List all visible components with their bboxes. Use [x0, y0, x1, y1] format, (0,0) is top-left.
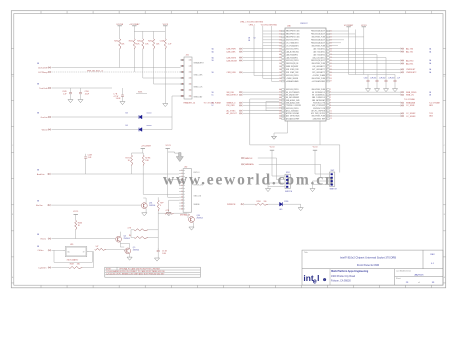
U36 right pin row 28 — [327, 113, 330, 115]
J30 left pin 4 stub — [179, 178, 183, 180]
U36 left pin row 16 — [282, 75, 285, 77]
svg-text:REV: REV — [430, 254, 435, 256]
wire R259 to Q30 — [174, 212, 187, 214]
wire Q31 emitter to ground — [145, 208, 147, 212]
svg-text:47: 47 — [279, 108, 281, 110]
svg-text:USB_D2B/N_CNR: USB_D2B/N_CNR — [286, 69, 299, 71]
wire loop below U35 — [53, 250, 55, 262]
svg-text:Last Modified Date: Last Modified Date — [396, 269, 411, 272]
svg-text:13: 13 — [181, 206, 183, 208]
svg-text:VCC3SBY: VCC3SBY — [344, 25, 354, 27]
resistor R258 330 — [255, 203, 268, 205]
transistor Q30 — [189, 217, 195, 223]
J31 right pin 14 mark — [189, 95, 192, 97]
svg-text:9: 9 — [181, 194, 182, 196]
svg-text:4: 4 — [181, 179, 182, 181]
U36 left pin row 27 — [282, 110, 285, 112]
svg-text:60: 60 — [279, 31, 281, 33]
svg-text:8: 8 — [41, 12, 42, 14]
ground under C263 — [392, 89, 397, 92]
svg-text:J30: J30 — [184, 166, 187, 168]
wire Q33 collector — [129, 244, 131, 249]
port symbol GRNLITE — [48, 116, 49, 117]
svg-text:330: 330 — [77, 264, 80, 266]
resistor R250 10K — [119, 39, 121, 50]
port symbol CD_SPKR — [48, 67, 49, 68]
svg-text:GND/VSS_BYPLN: GND/VSS_BYPLN — [286, 60, 299, 62]
ground SW2 — [310, 189, 315, 192]
wire VCC5 to R266 — [75, 215, 77, 221]
svg-text:SENSE: SENSE — [194, 204, 201, 206]
U36 left pin row 10 — [282, 57, 285, 59]
svg-text:7: 7 — [67, 12, 68, 14]
svg-text:SMB_CLK2B/SCLK: SMB_CLK2B/SCLK — [312, 97, 325, 99]
svg-text:GND_LNK: GND_LNK — [194, 75, 204, 77]
svg-text:10: 10 — [181, 197, 183, 199]
svg-text:74LVC06A/SO: 74LVC06A/SO — [67, 258, 79, 261]
wire PWRBTN to R258 — [244, 203, 255, 205]
U36 right pin wire CNRDDET2 — [329, 71, 401, 73]
wire R266 down to ENET wire — [75, 230, 77, 239]
J30 left pin 7 stub — [179, 187, 183, 189]
svg-text:68: 68 — [279, 54, 281, 56]
svg-text:76: 76 — [279, 78, 281, 80]
diode CR34 blue — [139, 115, 142, 119]
wire R264 left down — [131, 229, 134, 231]
wire CNR_USB to U36 — [243, 71, 280, 73]
svg-text:8: 8 — [249, 12, 250, 14]
J30 left pin 10 stub — [179, 196, 183, 198]
svg-text:35: 35 — [330, 75, 332, 77]
net label SMBCLK — [241, 157, 242, 158]
wire CR35 to rail — [142, 129, 172, 131]
svg-text:Sheet: Sheet — [396, 277, 401, 280]
svg-text:74: 74 — [279, 72, 281, 74]
wire R250 bottom down — [119, 49, 121, 67]
transistor Q33 — [125, 248, 131, 254]
svg-text:VCC5: VCC5 — [73, 211, 78, 213]
svg-text:LAN_PWR: LAN_PWR — [227, 48, 237, 51]
J30 left pin 1 stub — [179, 170, 183, 172]
wire U36 lower-left pin routing — [250, 98, 279, 100]
U36 left pin row 1 — [282, 30, 285, 32]
svg-text:CtlGrn: CtlGrn — [37, 249, 44, 252]
svg-text:8: 8 — [181, 191, 182, 193]
wire rail linking resistor tops — [134, 30, 165, 32]
U36 right pin row 17 — [327, 77, 330, 79]
svg-text:3: 3 — [181, 176, 182, 178]
intel logo — [303, 273, 326, 285]
J30 left pin 5 stub — [179, 181, 183, 183]
svg-text:46: 46 — [279, 105, 281, 107]
svg-text:YelLite: YelLite — [41, 128, 48, 131]
resistor R251 8.2K — [133, 39, 135, 50]
revision table row 3 — [105, 274, 201, 276]
svg-text:2: 2 — [405, 12, 406, 14]
svg-text:www.eeworld.com.cn: www.eeworld.com.cn — [163, 172, 335, 189]
U36 left pin row 8 — [282, 51, 285, 53]
svg-text:2N3904: 2N3904 — [197, 217, 203, 219]
svg-text:VCC3: VCC3 — [165, 145, 170, 147]
resistor R252 10K — [142, 39, 144, 50]
svg-text:VCC3: VCC3 — [361, 25, 367, 27]
U36 right pin row 5 — [327, 42, 330, 44]
wire CD_SPKR to header — [52, 67, 181, 69]
svg-text:B4: B4 — [126, 113, 128, 115]
transistor Q31 — [141, 203, 147, 209]
svg-text:RSVD/NC25_PIN: RSVD/NC25_PIN — [313, 102, 325, 104]
frame zone tick marks top/bottom — [40, 11, 42, 14]
wire SW2 pins to ground — [313, 180, 327, 182]
svg-text:SMB_DAT: SMB_DAT — [194, 96, 204, 99]
wire U36 bottom right down to SMB rail — [319, 121, 321, 145]
wire diode rail vertical — [171, 96, 173, 130]
port symbol CTL_GRN — [48, 250, 49, 251]
J30 left pin 3 stub — [179, 176, 183, 178]
svg-text:50: 50 — [279, 116, 281, 118]
U36 right pin wire CC_SDIN2 — [329, 112, 401, 114]
svg-text:AA_TX1: AA_TX1 — [406, 50, 413, 53]
wire AMBLITE to J30 — [51, 173, 179, 175]
svg-text:TestOnln: TestOnln — [39, 87, 48, 90]
J31 right pin 10 mark — [189, 83, 192, 85]
J30 left pin 8 stub — [179, 190, 183, 192]
U36 left pin row 3 — [282, 36, 285, 38]
U36 right pin row 11 — [327, 60, 330, 62]
U36 right pin row 9 — [327, 54, 330, 56]
ground under U36 — [271, 136, 276, 139]
svg-text:73: 73 — [279, 69, 281, 71]
U36 right pin wire SMB_LN — [329, 94, 401, 96]
wire CR34 to rail — [142, 116, 172, 118]
resistor R270 1.8K — [142, 155, 144, 166]
svg-text:32: 32 — [330, 66, 332, 68]
J31 left pin 5 stub — [181, 71, 185, 73]
U36 right pin wire SMB_RSVD — [329, 91, 401, 93]
U36 right pin row 1 — [327, 30, 330, 32]
resistor R253 10K — [153, 39, 155, 50]
resistor R264 horizontal — [134, 229, 148, 231]
U36 left pin row 6 — [282, 45, 285, 47]
svg-text:B4: B4 — [126, 125, 128, 127]
ground under C262 — [383, 89, 388, 92]
svg-text:R250: R250 — [114, 41, 118, 43]
svg-text:3: 3 — [171, 12, 172, 14]
svg-text:14: 14 — [189, 96, 191, 98]
svg-text:7: 7 — [182, 78, 183, 80]
svg-text:GND/VSSBX_PLNE: GND/VSSBX_PLNE — [311, 89, 325, 91]
svg-text:2N3904: 2N3904 — [149, 205, 155, 207]
svg-text:ECTBeep: ECTBeep — [38, 72, 48, 74]
wire U36 feed vertical 2 — [262, 26, 264, 78]
svg-text:10: 10 — [189, 84, 191, 86]
ground after CR36 — [298, 208, 303, 211]
svg-text:AA_RX1: AA_RX1 — [406, 62, 413, 65]
wire +VCC3SBY to rail — [142, 148, 144, 153]
wire J30 pins left routing down — [168, 178, 179, 180]
power symbol VCC3 — [163, 25, 167, 27]
svg-text:11: 11 — [181, 200, 183, 202]
wire R252 bottom down — [142, 49, 144, 78]
wire R271 down to AMBLITE wire — [131, 166, 133, 174]
U36 left pin row 9 — [282, 54, 285, 56]
U36 left pin row 13 — [282, 66, 285, 68]
wire R270 down — [142, 166, 144, 195]
svg-text:GND/VSS_BYPLN: GND/VSS_BYPLN — [286, 40, 299, 42]
U35 pin stubs — [63, 249, 65, 251]
U36 right pin row 14 — [327, 69, 330, 71]
J31 left pin 7 stub — [181, 77, 185, 79]
svg-text:C260: C260 — [364, 77, 368, 79]
J30 left pin 6 stub — [179, 184, 183, 186]
svg-text:AC_SYNC: AC_SYNC — [227, 110, 237, 113]
wire VCC3 down — [164, 26, 166, 39]
wire VCC3 down to J30 area — [167, 148, 169, 197]
wire R272 top — [157, 197, 159, 200]
svg-text:GND/VSS_BYPLN: GND/VSS_BYPLN — [286, 75, 299, 77]
U36 right pin row 22 — [327, 97, 330, 99]
net port SMBDATA — [402, 102, 403, 103]
svg-text:12: 12 — [181, 203, 183, 205]
U36 left pin row 15 — [282, 72, 285, 74]
wire R267 right — [82, 267, 93, 269]
J30 inner pin marks — [183, 170, 185, 172]
svg-text:64: 64 — [279, 42, 281, 44]
svg-text:SMB_CLK: SMB_CLK — [194, 87, 204, 89]
U36 left pin row 30 — [282, 118, 285, 120]
capacitor C263 bypass — [394, 75, 396, 81]
svg-text:1.0M: 1.0M — [162, 253, 166, 255]
revision table header row — [105, 269, 201, 271]
svg-text:VCC5B: VCC5B — [116, 24, 123, 26]
wire ETNGRN to Q31 base — [51, 204, 141, 206]
svg-text:51: 51 — [279, 118, 281, 120]
svg-text:SMBDATA: SMBDATA — [245, 163, 255, 166]
svg-text:147: 147 — [96, 246, 99, 248]
svg-text:77: 77 — [279, 81, 281, 83]
svg-text:R258: R258 — [257, 201, 261, 203]
svg-text:CHNL_1: CHNL_1 — [249, 24, 256, 26]
svg-text:CR36: CR36 — [284, 201, 288, 203]
U36 right pin wire AA_RX0 — [329, 60, 401, 62]
resistor R265 horizontal — [134, 236, 148, 238]
svg-text:6: 6 — [93, 12, 94, 14]
ground under C249 — [68, 100, 73, 103]
J31 right pin 12 mark — [189, 89, 192, 91]
svg-text:70: 70 — [279, 60, 281, 62]
port symbol LIGHTGRN — [48, 267, 49, 268]
svg-text:GND/VSSBX_PLNE: GND/VSSBX_PLNE — [311, 37, 325, 39]
U36 right pin row 7 — [327, 48, 330, 50]
svg-text:71: 71 — [279, 63, 281, 65]
U36 left pin row 28 — [282, 113, 285, 115]
svg-text:T-10 5 PLANE: T-10 5 PLANE — [429, 101, 441, 104]
U36 right pin wire SMBDATA — [329, 102, 401, 104]
wire R272 bottom rail down — [157, 211, 159, 250]
svg-text:1: 1 — [182, 60, 183, 62]
svg-text:AC_SDOUT: AC_SDOUT — [227, 112, 238, 115]
svg-text:R253: R253 — [148, 41, 152, 43]
svg-text:VCC3: VCC3 — [163, 24, 169, 26]
svg-text:l: l — [317, 273, 319, 283]
svg-text:AA29105: AA29105 — [414, 273, 424, 276]
U36 left pin row 19 — [282, 89, 285, 91]
svg-text:CD/CDOE: CD/CDOE — [38, 67, 48, 69]
svg-text:CNR_USB: CNR_USB — [227, 72, 237, 74]
wire U35 out — [87, 251, 94, 253]
svg-text:2N3904: 2N3904 — [124, 238, 130, 240]
net port AA_RX0 — [402, 60, 403, 61]
capacitor C250 .01uF — [80, 88, 82, 93]
svg-text:HEADER_14: HEADER_14 — [184, 101, 197, 104]
J31 left pin 3 stub — [181, 65, 185, 67]
svg-text:65: 65 — [279, 45, 281, 47]
wire U36 row9 to cap rail — [329, 54, 377, 56]
svg-text:MSTBAL_N: MSTBAL_N — [180, 214, 191, 217]
diode CR35 blue — [139, 128, 142, 132]
U36 right pin wire CC_SDIN — [329, 104, 401, 106]
svg-text:69: 69 — [279, 57, 281, 59]
U36 right pin row 20 — [327, 91, 330, 93]
svg-text:KEYLK_LN: KEYLK_LN — [194, 184, 204, 186]
J30 left pin 9 stub — [179, 193, 183, 195]
J31 left pin 13 stub — [181, 95, 185, 97]
U36 right pin row 13 — [327, 66, 330, 68]
J30 left pin 2 stub — [179, 173, 183, 175]
svg-text:GND/VSS_BYPLN: GND/VSS_BYPLN — [286, 89, 299, 91]
svg-text:SERR_IRQ5B/INT: SERR_IRQ5B/INT — [286, 66, 298, 68]
svg-text:SMB_LN: SMB_LN — [406, 95, 414, 97]
ground under C261 — [374, 89, 379, 92]
J30 left pin 13 stub — [179, 205, 183, 207]
wire U36 left pin stubs to bus — [263, 30, 280, 32]
svg-text:5: 5 — [182, 72, 183, 74]
U36 right pin wire CC_SDIN3 — [329, 115, 401, 117]
svg-text:36: 36 — [330, 78, 332, 80]
svg-text:11: 11 — [182, 90, 184, 92]
svg-text:40: 40 — [279, 89, 281, 91]
svg-text:SMBTCH: SMBTCH — [285, 191, 293, 193]
svg-text:2: 2 — [181, 173, 182, 175]
U36 left pin row 7 — [282, 48, 285, 50]
U36 left pin row 20 — [282, 91, 285, 93]
svg-text:LightGrn: LightGrn — [39, 266, 48, 269]
svg-text:.1uF: .1uF — [397, 77, 400, 79]
wire CR36 to ground — [283, 203, 301, 205]
svg-text:SMBCLK: SMBCLK — [245, 158, 254, 160]
svg-text:75: 75 — [279, 75, 281, 77]
U36 left pin row 11 — [282, 60, 285, 62]
svg-text:TO 5 V DUAL PLANE: TO 5 V DUAL PLANE — [204, 102, 222, 105]
J30 left pin 12 stub — [179, 202, 183, 204]
svg-text:44: 44 — [279, 100, 281, 102]
wire U36 bottom left down — [287, 121, 289, 133]
power symbol VCC3SBY right — [346, 26, 350, 28]
svg-text:4: 4 — [160, 205, 161, 207]
power symbol VCC5B — [118, 25, 122, 27]
svg-text:+5VREF_SB/USB: +5VREF_SB/USB — [286, 78, 298, 80]
port symbol YELLITE — [48, 129, 49, 130]
wire VCC3 SW2 down — [314, 150, 316, 174]
net port AA_TX1 — [402, 51, 403, 52]
ground under C247 — [154, 258, 159, 261]
J30 left pin 11 stub — [179, 199, 183, 201]
drawing frame outer border — [11, 11, 445, 288]
wire GRNLITE to diode CR34 — [52, 116, 139, 118]
wire CTL_GRN to U35 — [52, 249, 66, 251]
resistor R266 1K — [75, 220, 77, 230]
J31 right pin 2 mark — [189, 59, 192, 61]
svg-text:61: 61 — [279, 34, 281, 36]
U36 left pin row 29 — [282, 115, 285, 117]
wire MB_DETECT to U36 — [243, 94, 280, 96]
svg-text:GND/VSSBX_PLNE: GND/VSSBX_PLNE — [311, 116, 325, 118]
svg-text:EE_DOUT2B/EEPD: EE_DOUT2B/EEPD — [286, 92, 300, 94]
U36 right pin wire AA_TX1 — [329, 51, 401, 53]
svg-text:R4: R4 — [129, 235, 131, 237]
wire Q32 emitter down — [119, 242, 121, 247]
svg-text:2N3904: 2N3904 — [133, 250, 139, 252]
svg-text:42: 42 — [279, 94, 281, 96]
svg-text:1900 Prairie City Road: 1900 Prairie City Road — [331, 275, 356, 278]
connector J31 body — [184, 57, 192, 99]
J31 left pin 11 stub — [181, 89, 185, 91]
U36 right pin row 23 — [327, 99, 330, 101]
svg-text:6: 6 — [181, 185, 182, 187]
svg-text:63: 63 — [279, 39, 281, 41]
resistor R267 330 horizontal — [69, 266, 83, 268]
wire Q30 base up — [187, 213, 189, 218]
U36 right pin row 30 — [327, 118, 330, 120]
capacitor C247 1uF on rail — [157, 248, 159, 250]
U36 left pin row 21 — [282, 94, 285, 96]
net port CNRDDET2 — [402, 72, 403, 73]
ground SW1 — [265, 189, 270, 192]
wire SW1 pins to ground — [268, 182, 282, 184]
title block dividers — [302, 268, 443, 270]
svg-text:12: 12 — [189, 90, 191, 92]
wire J30 bottom-left to ground — [169, 199, 179, 201]
svg-text:C263: C263 — [391, 77, 395, 79]
U36 left pin row 14 — [282, 69, 285, 71]
svg-text:14: 14 — [181, 209, 183, 211]
ground under Q30 — [189, 227, 194, 230]
ground left of J30 bottom — [166, 213, 171, 216]
svg-text:SMBTCH: SMBTCH — [330, 189, 338, 191]
svg-text:CNRDDET2: CNRDDET2 — [406, 72, 416, 74]
svg-text:1: 1 — [223, 12, 224, 14]
capacitor C148 .1uF — [164, 39, 166, 50]
svg-text:LAN_RST3: LAN_RST3 — [227, 56, 237, 59]
svg-text:13: 13 — [330, 118, 332, 120]
power symbol VCC3 right — [362, 26, 366, 28]
wire U36 left lower stubs — [266, 100, 279, 102]
switch SW1 body — [285, 174, 290, 188]
svg-text:3: 3 — [379, 12, 380, 14]
svg-text:EE_SK25B/EECLK: EE_SK25B/EECLK — [312, 92, 325, 94]
wire LAN_MODE to U36 — [243, 60, 280, 62]
U36 left pin row 4 — [282, 39, 285, 41]
power symbol +VCC3SBY — [132, 25, 136, 27]
svg-text:LAN_MODE: LAN_MODE — [227, 59, 238, 62]
U36 right pin row 15 — [327, 72, 330, 74]
U36 right pin row 26 — [327, 107, 330, 109]
resistor R268 horizontal — [95, 248, 106, 250]
wire LAN_RST3 to U36 — [243, 57, 280, 59]
svg-text:AmbLite: AmbLite — [37, 173, 45, 176]
IC U35 buffer body — [65, 247, 87, 257]
U36 right pin row 3 — [327, 36, 330, 38]
